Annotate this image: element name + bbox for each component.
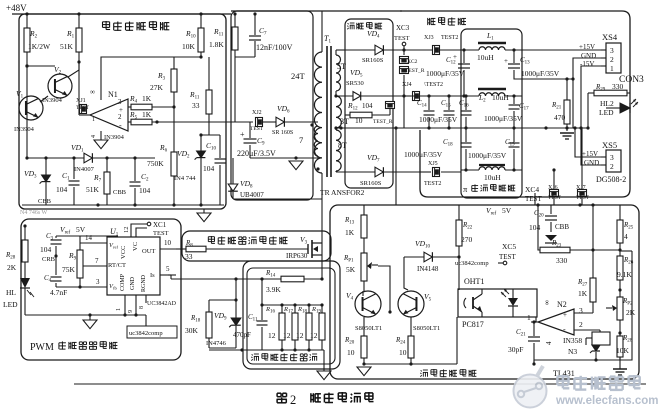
svg-text:PC817: PC817: [462, 320, 484, 329]
svg-text:XC5: XC5: [502, 242, 516, 251]
zener VD2: [200, 135, 202, 151]
svg-text:1000μF/35V: 1000μF/35V: [404, 150, 443, 159]
svg-text:XJ1: XJ1: [76, 98, 86, 104]
svg-text:IN3904: IN3904: [14, 126, 35, 133]
transistor V5: [398, 291, 424, 317]
diode VD4 SR160S: [375, 45, 383, 55]
svg-text:R5: R5: [129, 110, 138, 121]
wire R29 left: [587, 93, 589, 128]
svg-text:IN4 744: IN4 744: [174, 175, 196, 182]
diode VD8 UB4007: [232, 158, 234, 184]
resistor R12 snub: [345, 114, 350, 116]
wire VD5 out: [361, 95, 404, 97]
svg-text:VD6: VD6: [277, 104, 290, 115]
svg-text:OUT: OUT: [142, 248, 155, 255]
svg-text:+48V: +48V: [6, 3, 27, 13]
transistor V4: [355, 291, 381, 317]
box current sampling outer: [243, 261, 340, 369]
svg-text:R2: R2: [29, 29, 38, 40]
diode VD10 IN4148: [404, 256, 424, 258]
svg-text:51K: 51K: [60, 42, 74, 51]
svg-text:VD9: VD9: [214, 311, 227, 322]
capacitor C15: [448, 96, 450, 110]
ground C20: [545, 235, 557, 241]
wire fb bottom rail: [364, 363, 457, 365]
wire -15V XS4: [581, 66, 601, 128]
svg-text:R4: R4: [129, 94, 138, 105]
svg-text:TEST: TEST: [576, 195, 590, 201]
svg-text:UB4007: UB4007: [240, 191, 264, 199]
svg-text:C1: C1: [62, 171, 70, 182]
capacitor C4: [55, 256, 57, 275]
svg-text:-: -: [563, 325, 566, 334]
ground R21: [560, 132, 574, 134]
svg-text:IN4746: IN4746: [206, 340, 227, 347]
svg-text:104: 104: [56, 185, 68, 194]
svg-text:10K: 10K: [182, 42, 196, 51]
svg-text:uc3842comp: uc3842comp: [455, 260, 489, 267]
label title dian-ya-fan-kui: [421, 370, 422, 371]
svg-text:10K: 10K: [616, 346, 630, 355]
wire filter bottom rail: [209, 349, 324, 351]
node R2-V1: [25, 64, 28, 67]
wire R5 to XJ2 row: [152, 121, 253, 123]
wire row2 left: [404, 95, 461, 97]
resistor R11b 1.8K: [232, 27, 238, 50]
svg-text:C21: C21: [516, 328, 526, 338]
svg-text:1.8K: 1.8K: [209, 40, 224, 49]
resistor R21 470: [566, 101, 568, 103]
resistor R18c 12: [306, 313, 312, 340]
svg-text:R9: R9: [68, 251, 77, 262]
svg-text:C17: C17: [519, 102, 529, 112]
capacitor C9 electrolytic: [249, 122, 251, 138]
svg-text:1K: 1K: [345, 228, 355, 237]
wire R9: [79, 243, 81, 250]
svg-text:+15V: +15V: [579, 43, 595, 51]
svg-text:4: 4: [545, 341, 553, 345]
svg-text:R18: R18: [190, 314, 201, 324]
svg-text:7: 7: [299, 135, 303, 145]
label title zheng-liu-dian-lu: [348, 23, 349, 24]
capacitor C7: [254, 14, 256, 35]
ground R28b: [613, 368, 627, 370]
svg-text:470: 470: [554, 113, 566, 122]
svg-text:GND: GND: [581, 52, 596, 60]
svg-text:Is: Is: [150, 272, 155, 279]
svg-text:RGND: RGND: [141, 274, 147, 292]
svg-text:1000μF/35V: 1000μF/35V: [521, 69, 560, 78]
ground below N1 (pin4): [100, 131, 102, 140]
svg-text:VCC: VCC: [120, 246, 127, 259]
svg-text:1: 1: [527, 313, 531, 322]
svg-text:IN358: IN358: [563, 336, 582, 345]
svg-text:VD5: VD5: [350, 68, 363, 79]
svg-text:30K: 30K: [185, 326, 199, 335]
svg-text:3: 3: [96, 278, 100, 286]
svg-text:5V: 5V: [502, 206, 512, 215]
wire XJ2 row: [234, 57, 236, 122]
svg-text:R10: R10: [185, 29, 196, 40]
svg-text:470pF: 470pF: [233, 331, 251, 339]
wire R3 top: [173, 56, 175, 58]
wire V2 base: [27, 65, 55, 67]
svg-text:TEST: TEST: [250, 126, 264, 132]
svg-text:12: 12: [283, 331, 291, 340]
zener pack R18b/VD9: [209, 299, 236, 301]
svg-text:VD10: VD10: [415, 239, 431, 250]
diode VD7 SR160S: [375, 167, 383, 177]
wire box B bottom rail: [233, 198, 322, 200]
watermark dianzi fashaoyou: [557, 375, 568, 377]
connector XS5: [606, 150, 621, 172]
resistor R3: [171, 69, 177, 92]
connector XJ6 TEST: [550, 190, 559, 197]
svg-text:12nF/100V: 12nF/100V: [256, 43, 293, 52]
svg-text:R11: R11: [213, 27, 224, 38]
svg-text:30pF: 30pF: [508, 345, 523, 354]
svg-text:N1: N1: [108, 90, 118, 99]
transformer secondary 5T: [336, 55, 341, 91]
node R10 bottom: [199, 55, 202, 58]
opto LED: [508, 298, 518, 306]
svg-text:R28: R28: [5, 251, 16, 261]
svg-text:DG508-2: DG508-2: [596, 175, 626, 184]
svg-text:R21: R21: [551, 101, 562, 111]
capacitor C21: [533, 322, 535, 336]
LED HL2: [606, 107, 620, 109]
wire mid rail output: [404, 127, 588, 129]
resistor R10: [198, 28, 204, 52]
capacitor C11: [261, 279, 263, 320]
svg-text:VC: VC: [132, 242, 139, 251]
svg-text:75K: 75K: [62, 265, 76, 274]
capacitor C20: [550, 205, 552, 214]
svg-text:VD2: VD2: [177, 149, 190, 160]
svg-text:C18: C18: [443, 138, 453, 148]
resistor R8 33: [176, 248, 186, 250]
svg-text:10uH: 10uH: [492, 93, 509, 102]
svg-text:270: 270: [461, 235, 473, 244]
svg-text:C9: C9: [257, 136, 265, 147]
svg-text:IN4007: IN4007: [74, 166, 95, 173]
wire C21 bottom: [533, 363, 535, 365]
svg-text:TEST2: TEST2: [441, 35, 458, 41]
svg-text:T1: T1: [324, 34, 331, 45]
svg-text:2K: 2K: [7, 263, 17, 272]
svg-text:R13: R13: [344, 216, 355, 226]
wire c4 to pin3: [55, 286, 57, 288]
connector XJ1 TEST: [80, 105, 87, 114]
svg-text:SR160S: SR160S: [362, 57, 384, 64]
svg-text:104: 104: [362, 102, 373, 110]
svg-text:750K: 750K: [147, 159, 164, 168]
svg-text:3: 3: [118, 98, 122, 106]
svg-text:1K: 1K: [142, 94, 152, 103]
wire R14 right: [304, 278, 322, 280]
svg-text:Vref: Vref: [109, 242, 118, 250]
box upper-switch circuit (shang dian qie huan): [19, 14, 226, 209]
svg-text:\TEST2: \TEST2: [424, 82, 443, 88]
inductor L63: [461, 169, 479, 171]
svg-text:UC3842AD: UC3842AD: [147, 301, 177, 307]
resistor R7: [104, 172, 110, 194]
svg-text:R28: R28: [622, 334, 633, 344]
svg-text:2K: 2K: [626, 308, 636, 317]
svg-text:CBB: CBB: [38, 198, 52, 205]
label title shu-chu-dian-lu: [427, 18, 429, 25]
capacitor C12: [463, 50, 465, 63]
svg-text:33: 33: [185, 252, 193, 261]
resistor R28a 2K: [22, 240, 28, 262]
watermark magnifier logo: [514, 366, 547, 408]
svg-text:Vref: Vref: [486, 206, 496, 217]
svg-text:R19: R19: [311, 306, 321, 315]
chip bottom pins: [124, 295, 126, 315]
svg-text:XC2: XC2: [407, 59, 418, 65]
svg-text:L1: L1: [486, 31, 494, 42]
transformer primary coil: [321, 11, 323, 52]
svg-text:GND: GND: [584, 159, 599, 167]
svg-text:C20: C20: [534, 209, 544, 219]
resistor R26 9.1K: [617, 256, 623, 280]
resistor R14 3.9K: [281, 276, 304, 282]
wire VD7 out: [384, 171, 420, 173]
capacitor C1: [73, 158, 75, 179]
svg-text:TEST: TEST: [548, 195, 562, 201]
diode VD5 SR530: [353, 92, 361, 101]
svg-text:GND: GND: [130, 276, 136, 290]
svg-text:V5: V5: [424, 292, 432, 303]
resistor R2: [24, 28, 30, 52]
wire +15V to XS4: [522, 49, 606, 51]
capacitor C2: [134, 158, 136, 181]
svg-text:10uH: 10uH: [477, 53, 494, 62]
svg-text:VD8: VD8: [240, 179, 253, 190]
svg-text:+: +: [563, 311, 567, 319]
resistor R20 10: [361, 336, 367, 358]
svg-text:CBB: CBB: [555, 223, 569, 231]
op-amp N1 comparator: [90, 99, 128, 131]
svg-text:8T: 8T: [338, 141, 347, 150]
resistor R16 12: [279, 313, 285, 340]
wire row3: [460, 169, 462, 171]
wire mid rail box A: [27, 157, 155, 159]
wire XS5 feed: [575, 128, 601, 157]
capacitor C16: [465, 96, 467, 110]
resistor R28b 10K: [617, 336, 623, 357]
svg-text:330: 330: [612, 82, 624, 91]
svg-text:OHT1: OHT1: [464, 277, 484, 286]
svg-text:12: 12: [123, 227, 130, 234]
svg-text:TEST_R: TEST_R: [373, 119, 393, 125]
inductor L1: [461, 49, 479, 51]
resistor R25 4: [617, 220, 623, 243]
svg-text:2: 2: [610, 162, 614, 171]
svg-text:XJ6: XJ6: [548, 185, 558, 191]
svg-text:Vref: Vref: [60, 225, 70, 236]
capacitor C13: [513, 50, 515, 63]
svg-text:C2: C2: [141, 172, 149, 183]
wire rect mid rail: [336, 127, 404, 129]
svg-text:27K: 27K: [150, 83, 164, 92]
aux winding coil: [314, 126, 318, 156]
svg-text:R7: R7: [93, 173, 102, 184]
svg-text:R12: R12: [347, 101, 358, 112]
wire VD7 row: [336, 171, 375, 173]
svg-text:COMP: COMP: [120, 273, 126, 291]
svg-text:2: 2: [579, 320, 583, 329]
wire N2 out to PC817: [535, 317, 537, 322]
svg-text:C11: C11: [248, 313, 258, 323]
wire chip bottom rail: [25, 314, 146, 316]
resistor R1: [76, 28, 82, 52]
label title dian-liu-cai-yang: [252, 354, 253, 355]
svg-text:104: 104: [139, 186, 151, 195]
transistor V1: [19, 96, 43, 120]
svg-text:TEST: TEST: [76, 105, 90, 111]
connector XJ7 TEST: [578, 190, 587, 197]
ground PWM: [89, 315, 91, 320]
svg-text:7: 7: [95, 257, 99, 265]
svg-text:12: 12: [296, 331, 304, 340]
separator line: [74, 383, 646, 385]
svg-text:1000μF/35V: 1000μF/35V: [484, 114, 523, 123]
svg-text:-: -: [119, 121, 122, 130]
pot RP2 2K: [617, 297, 623, 320]
svg-text:TEST_R: TEST_R: [405, 68, 425, 74]
wire N1 output: [79, 114, 90, 116]
svg-text:330: 330: [556, 256, 568, 265]
terminal XC1 TEST: [147, 222, 151, 226]
wire RP1 wiper: [378, 266, 390, 312]
wire XJ2-VD6: [263, 121, 276, 123]
svg-text:R1: R1: [66, 29, 75, 40]
wire base join: [362, 291, 364, 296]
opamp N2: [538, 309, 574, 335]
svg-text:TEST: TEST: [499, 253, 516, 261]
svg-text:PWM: PWM: [30, 342, 54, 353]
svg-text:51K: 51K: [86, 185, 100, 194]
connector XC2 TEST_R: [400, 57, 409, 64]
transformer secondary 3T: [336, 96, 341, 128]
svg-text:TR ANSFOR2: TR ANSFOR2: [320, 188, 365, 197]
wire V1 emitter down: [26, 96, 28, 158]
box snubber/primary: [231, 11, 313, 200]
svg-text:SR160S: SR160S: [360, 180, 382, 187]
diode VD6 SR160S: [276, 117, 284, 127]
svg-text:XC4: XC4: [525, 185, 539, 194]
svg-text:IRP630: IRP630: [286, 252, 308, 260]
svg-text:RT/CT: RT/CT: [108, 262, 126, 269]
resistor R5: [131, 119, 152, 125]
optocoupler PC817 box: [458, 289, 537, 317]
svg-text:R6: R6: [159, 143, 168, 154]
wire VD4 out: [384, 49, 461, 51]
resistor R27 1K: [590, 278, 596, 302]
svg-text:SR 160S: SR 160S: [272, 130, 293, 136]
svg-text:HL: HL: [6, 288, 16, 297]
svg-text:10: 10: [399, 348, 407, 357]
wire V3 source: [321, 261, 323, 279]
wire under C7: [235, 56, 255, 58]
svg-text:N3: N3: [568, 347, 577, 356]
svg-text:V3: V3: [300, 235, 308, 246]
svg-text:V4: V4: [346, 291, 354, 302]
svg-text:3.9K: 3.9K: [266, 285, 281, 294]
connector XJ2 TEST: [256, 118, 263, 127]
resistor R19 12: [319, 313, 325, 340]
svg-text:10: 10: [355, 116, 363, 125]
svg-text:RP2: RP2: [622, 297, 633, 307]
svg-text:1K: 1K: [578, 289, 588, 298]
svg-text:S8050LT1: S8050LT1: [413, 325, 440, 332]
box power mosfet driver: [182, 231, 331, 261]
svg-text:N2: N2: [557, 300, 567, 309]
svg-text:∞: ∞: [543, 300, 551, 305]
svg-text:4: 4: [91, 135, 97, 138]
svg-text:-15V: -15V: [580, 60, 594, 68]
resistor R13 1K: [361, 215, 367, 238]
svg-text:R24: R24: [395, 336, 406, 346]
wire pin5 long: [168, 274, 176, 276]
wire VD5 row: [336, 95, 353, 97]
TL431 N3: [592, 332, 610, 345]
svg-text:LED: LED: [599, 108, 614, 117]
svg-text:XC1: XC1: [153, 221, 167, 229]
wire VD2-C10 top: [201, 134, 220, 136]
box PWM controller: [21, 219, 181, 360]
svg-text:C14: C14: [417, 99, 427, 109]
svg-text:uc3842comp: uc3842comp: [129, 330, 163, 337]
box pi filter: [461, 29, 522, 198]
ground bottom middle: [317, 371, 331, 380]
resistor R17 12: [292, 313, 298, 340]
svg-text:VD3: VD3: [24, 169, 37, 180]
svg-text:10: 10: [347, 348, 355, 357]
wire V4V5 bases: [374, 311, 404, 313]
svg-text:VD7: VD7: [367, 153, 380, 164]
caption tu2 xitong yuanlitu: [277, 392, 281, 394]
wire vd10 left: [404, 257, 408, 290]
capacitor C14: [428, 96, 430, 110]
svg-text:XS5: XS5: [602, 140, 617, 150]
svg-text:S8050LT1: S8050LT1: [355, 325, 382, 332]
wire right bus: [620, 251, 632, 360]
transformer core: [326, 46, 328, 177]
svg-text:R27: R27: [577, 278, 588, 288]
svg-text:1000μF/35V: 1000μF/35V: [426, 69, 465, 78]
wire +48V top rail: [12, 13, 231, 15]
ground fb: [357, 367, 371, 376]
svg-text:VD4: VD4: [367, 29, 380, 40]
svg-text:XS4: XS4: [602, 32, 618, 42]
svg-text:3: 3: [610, 153, 614, 162]
svg-text:9: 9: [128, 310, 134, 313]
pot RP1 5K: [361, 253, 367, 281]
svg-text:R16: R16: [265, 306, 275, 315]
svg-text:LED: LED: [3, 300, 18, 309]
resistor R6: [171, 152, 177, 176]
svg-text:4.7nF: 4.7nF: [50, 288, 67, 297]
svg-text:1: 1: [116, 308, 122, 311]
transformer secondary 8T: [336, 130, 341, 171]
box current sampling inner: [247, 268, 335, 364]
svg-text:VD1: VD1: [71, 143, 84, 154]
wire HL2 column: [605, 107, 607, 109]
svg-text:104: 104: [40, 245, 52, 254]
svg-text:XC3: XC3: [396, 24, 410, 32]
